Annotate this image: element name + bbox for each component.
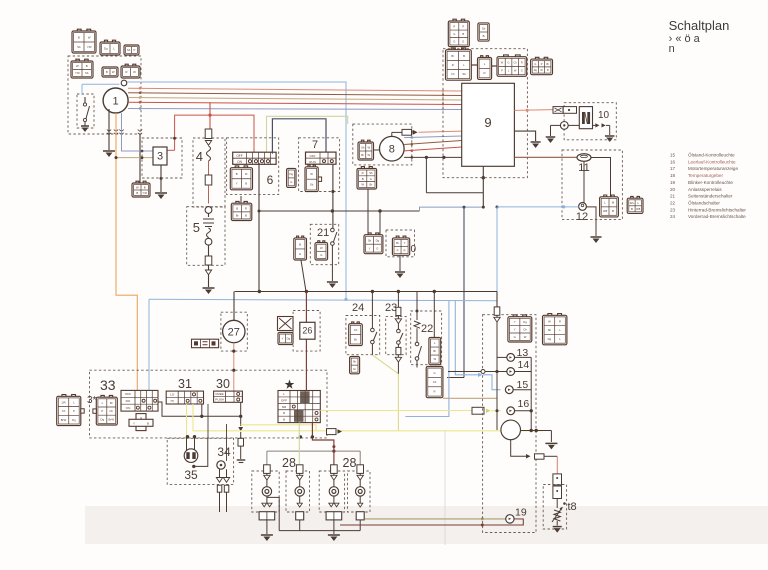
svg-text:Leerlauf-Kontrolleuchte: Leerlauf-Kontrolleuchte <box>688 159 736 164</box>
svg-text:5: 5 <box>193 220 200 235</box>
svg-text:Sb: Sb <box>462 72 466 76</box>
svg-text:B: B <box>245 182 247 186</box>
svg-text:19: 19 <box>515 507 527 519</box>
svg-text:W: W <box>112 70 115 74</box>
svg-text:R: R <box>362 171 364 175</box>
svg-text:Sb: Sb <box>548 328 552 332</box>
svg-text:G: G <box>320 253 322 257</box>
svg-text:Y: Y <box>282 337 284 341</box>
svg-text:G: G <box>453 39 455 43</box>
svg-text:W: W <box>361 183 364 187</box>
svg-text:Br: Br <box>370 183 373 187</box>
svg-text:BrW: BrW <box>61 418 67 422</box>
svg-text:W: W <box>320 246 323 250</box>
svg-text:Dg: Dg <box>376 238 380 242</box>
svg-text:31: 31 <box>178 377 192 391</box>
svg-text:P: P <box>101 409 103 413</box>
svg-text:W: W <box>310 172 313 176</box>
svg-text:B: B <box>106 70 108 74</box>
svg-text:Ölstand-Kontrolleuchte: Ölstand-Kontrolleuchte <box>688 152 735 158</box>
svg-text:R: R <box>559 319 561 323</box>
svg-text:30: 30 <box>216 377 230 391</box>
svg-text:24: 24 <box>352 302 364 314</box>
svg-text:12: 12 <box>576 211 588 223</box>
svg-text:Ch: Ch <box>433 380 437 384</box>
svg-text:Ch: Ch <box>523 327 527 331</box>
svg-text:Motortemperaturanzeige: Motortemperaturanzeige <box>688 166 738 171</box>
svg-text:R: R <box>547 69 549 72</box>
svg-text:W: W <box>368 153 371 157</box>
svg-text:B: B <box>236 172 238 176</box>
svg-text:B: B <box>144 185 146 189</box>
svg-text:Y: Y <box>369 246 371 250</box>
svg-text:Hinterrad-Bremslichtschalter: Hinterrad-Bremslichtschalter <box>688 207 746 212</box>
svg-text:B: B <box>462 32 464 36</box>
svg-text:B: B <box>78 35 80 39</box>
svg-text:R: R <box>245 206 247 210</box>
svg-text:B: B <box>147 422 149 426</box>
svg-text:P: P <box>134 48 136 52</box>
svg-text:G: G <box>508 62 510 65</box>
svg-text:28: 28 <box>282 456 296 470</box>
svg-text:10: 10 <box>598 110 610 121</box>
svg-text:P: P <box>397 248 399 252</box>
svg-text:Sb: Sb <box>310 183 314 187</box>
svg-text:Y: Y <box>514 327 516 331</box>
svg-text:R: R <box>126 70 128 74</box>
svg-text:W: W <box>368 145 371 149</box>
svg-text:Br: Br <box>396 241 399 245</box>
svg-text:W8: W8 <box>603 209 608 213</box>
svg-text:B: B <box>283 418 285 422</box>
svg-text:Ch: Ch <box>62 409 66 413</box>
svg-text:Blinker-Kontrolleuchte: Blinker-Kontrolleuchte <box>688 180 733 185</box>
svg-text:Anlasssperrelais: Anlasssperrelais <box>688 187 722 192</box>
svg-text:R/L: R/L <box>630 201 635 205</box>
svg-text:22: 22 <box>670 200 676 205</box>
svg-text:Dg: Dg <box>290 172 294 176</box>
svg-text:Temperaturgeber: Temperaturgeber <box>688 173 723 178</box>
svg-text:R: R <box>484 71 486 75</box>
svg-text:Vorderrad-Bremslichtschalte: Vorderrad-Bremslichtschalte <box>688 214 746 219</box>
svg-text:ON: ON <box>237 160 242 164</box>
svg-text:16: 16 <box>518 398 530 410</box>
svg-text:B: B <box>86 64 88 68</box>
svg-text:W: W <box>133 70 136 74</box>
svg-text:FREE: FREE <box>215 392 223 396</box>
svg-text:Br: Br <box>433 349 436 353</box>
svg-text:Br: Br <box>353 360 356 364</box>
svg-text:Sb: Sb <box>361 145 365 149</box>
svg-text:Sb: Sb <box>368 238 372 242</box>
svg-text:W: W <box>88 35 91 39</box>
svg-text:34: 34 <box>217 445 231 459</box>
svg-text:14: 14 <box>518 359 530 371</box>
svg-text:Gr: Gr <box>353 367 356 371</box>
svg-text:Br: Br <box>236 213 239 217</box>
svg-text:R: R <box>434 390 436 394</box>
svg-text:G: G <box>370 177 372 181</box>
svg-text:Y/R: Y/R <box>87 45 92 49</box>
svg-text:W: W <box>524 335 527 339</box>
svg-text:Dg: Dg <box>548 337 552 341</box>
svg-text:19: 19 <box>670 180 676 185</box>
svg-text:Dg: Dg <box>72 418 76 422</box>
svg-text:16: 16 <box>670 159 676 164</box>
svg-text:Sb: Sb <box>127 48 131 52</box>
svg-text:Y: Y <box>514 320 516 324</box>
svg-text:Sb: Sb <box>77 45 81 49</box>
svg-text:Dg: Dg <box>523 320 527 324</box>
svg-text:P: P <box>453 24 455 28</box>
svg-text:R: R <box>404 248 406 252</box>
svg-text:HI: HI <box>171 399 174 403</box>
svg-text:G: G <box>376 246 378 250</box>
svg-text:3: 3 <box>157 151 163 163</box>
svg-text:B: B <box>299 242 301 246</box>
svg-text:Sb: Sb <box>85 71 89 75</box>
svg-text:BrW: BrW <box>109 417 115 421</box>
svg-text:G: G <box>453 32 455 36</box>
svg-text:Br: Br <box>354 337 357 341</box>
svg-text:3*: 3* <box>87 395 97 406</box>
svg-text:RO: RO <box>126 399 131 403</box>
svg-text:OFF: OFF <box>310 154 316 158</box>
svg-text:G: G <box>290 180 292 184</box>
svg-text:22: 22 <box>421 323 433 335</box>
svg-text:B: B <box>612 209 614 213</box>
svg-text:Dg: Dg <box>104 47 108 51</box>
svg-text:RUN: RUN <box>309 160 316 164</box>
svg-text:Br: Br <box>451 54 454 58</box>
svg-text:G: G <box>433 371 435 375</box>
svg-text:Br: Br <box>547 63 550 66</box>
svg-text:OFF: OFF <box>236 154 242 158</box>
svg-text:Y: Y <box>404 241 406 245</box>
svg-text:Y/R: Y/R <box>142 191 147 195</box>
svg-text:1: 1 <box>113 95 119 107</box>
svg-text:26: 26 <box>302 326 312 336</box>
svg-text:35: 35 <box>184 468 198 482</box>
svg-text:Y: Y <box>236 182 238 186</box>
svg-text:Y/R: Y/R <box>75 71 80 75</box>
svg-text:Ölstandschalter: Ölstandschalter <box>688 199 720 205</box>
svg-text:B: B <box>136 191 138 195</box>
svg-text:G: G <box>534 63 536 66</box>
svg-text:4: 4 <box>196 149 203 164</box>
svg-text:W: W <box>433 357 436 361</box>
svg-text:27: 27 <box>228 326 240 338</box>
svg-text:PUSH: PUSH <box>215 398 224 402</box>
svg-text:33: 33 <box>100 377 116 393</box>
svg-text:Br: Br <box>361 153 364 157</box>
svg-text:Schaltplan: Schaltplan <box>669 18 730 33</box>
svg-text:G: G <box>521 70 523 73</box>
svg-text:G: G <box>299 252 301 256</box>
svg-text:G: G <box>462 39 464 43</box>
svg-text:Ch: Ch <box>451 72 455 76</box>
svg-text:t8: t8 <box>568 501 577 513</box>
svg-text:1/R: 1/R <box>61 400 65 404</box>
svg-text:P: P <box>73 409 75 413</box>
svg-text:ON: ON <box>126 406 131 410</box>
svg-text:LO: LO <box>170 393 175 397</box>
svg-text:OFF: OFF <box>281 398 287 402</box>
svg-text:L: L <box>283 392 285 396</box>
svg-text:R: R <box>452 63 454 67</box>
svg-text:18: 18 <box>670 173 676 178</box>
svg-text:B: B <box>631 207 633 211</box>
svg-text:P: P <box>462 24 464 28</box>
svg-text:Ch: Ch <box>354 328 358 332</box>
svg-text:n: n <box>669 43 675 55</box>
svg-text:17: 17 <box>670 166 676 171</box>
svg-text:Sb: Sb <box>482 26 486 30</box>
svg-text:W8: W8 <box>636 207 641 211</box>
svg-text:W: W <box>136 185 139 189</box>
svg-text:Dg: Dg <box>101 417 105 421</box>
svg-text:B: B <box>483 34 485 38</box>
svg-text:B: B <box>236 206 238 210</box>
svg-text:R: R <box>521 62 523 65</box>
svg-text:Seitenständerschalter: Seitenständerschalter <box>688 194 733 199</box>
svg-text:8: 8 <box>389 144 395 156</box>
svg-text:7: 7 <box>312 139 318 151</box>
svg-text:23: 23 <box>670 207 676 212</box>
svg-text:15: 15 <box>670 153 676 158</box>
svg-text:Ch: Ch <box>109 409 113 413</box>
svg-text:21: 21 <box>317 227 329 239</box>
svg-text:6: 6 <box>267 173 274 187</box>
svg-text:W: W <box>548 319 551 323</box>
svg-text:W: W <box>76 64 79 68</box>
svg-text:24: 24 <box>670 214 676 219</box>
svg-text:Y: Y <box>133 422 135 426</box>
svg-text:28: 28 <box>343 456 357 470</box>
svg-text:20: 20 <box>670 187 676 192</box>
svg-text:Sb: Sb <box>369 171 373 175</box>
svg-text:21: 21 <box>670 194 676 199</box>
svg-text:B: B <box>463 54 465 58</box>
svg-text:OFF: OFF <box>125 392 131 396</box>
svg-text:B: B <box>362 177 364 181</box>
svg-text:NR: NR <box>282 405 287 409</box>
svg-text:B: B <box>245 213 247 217</box>
svg-text:G: G <box>514 335 516 339</box>
svg-text:9: 9 <box>484 115 491 130</box>
svg-text:Dg: Dg <box>287 337 291 341</box>
svg-text:Br: Br <box>110 401 113 405</box>
